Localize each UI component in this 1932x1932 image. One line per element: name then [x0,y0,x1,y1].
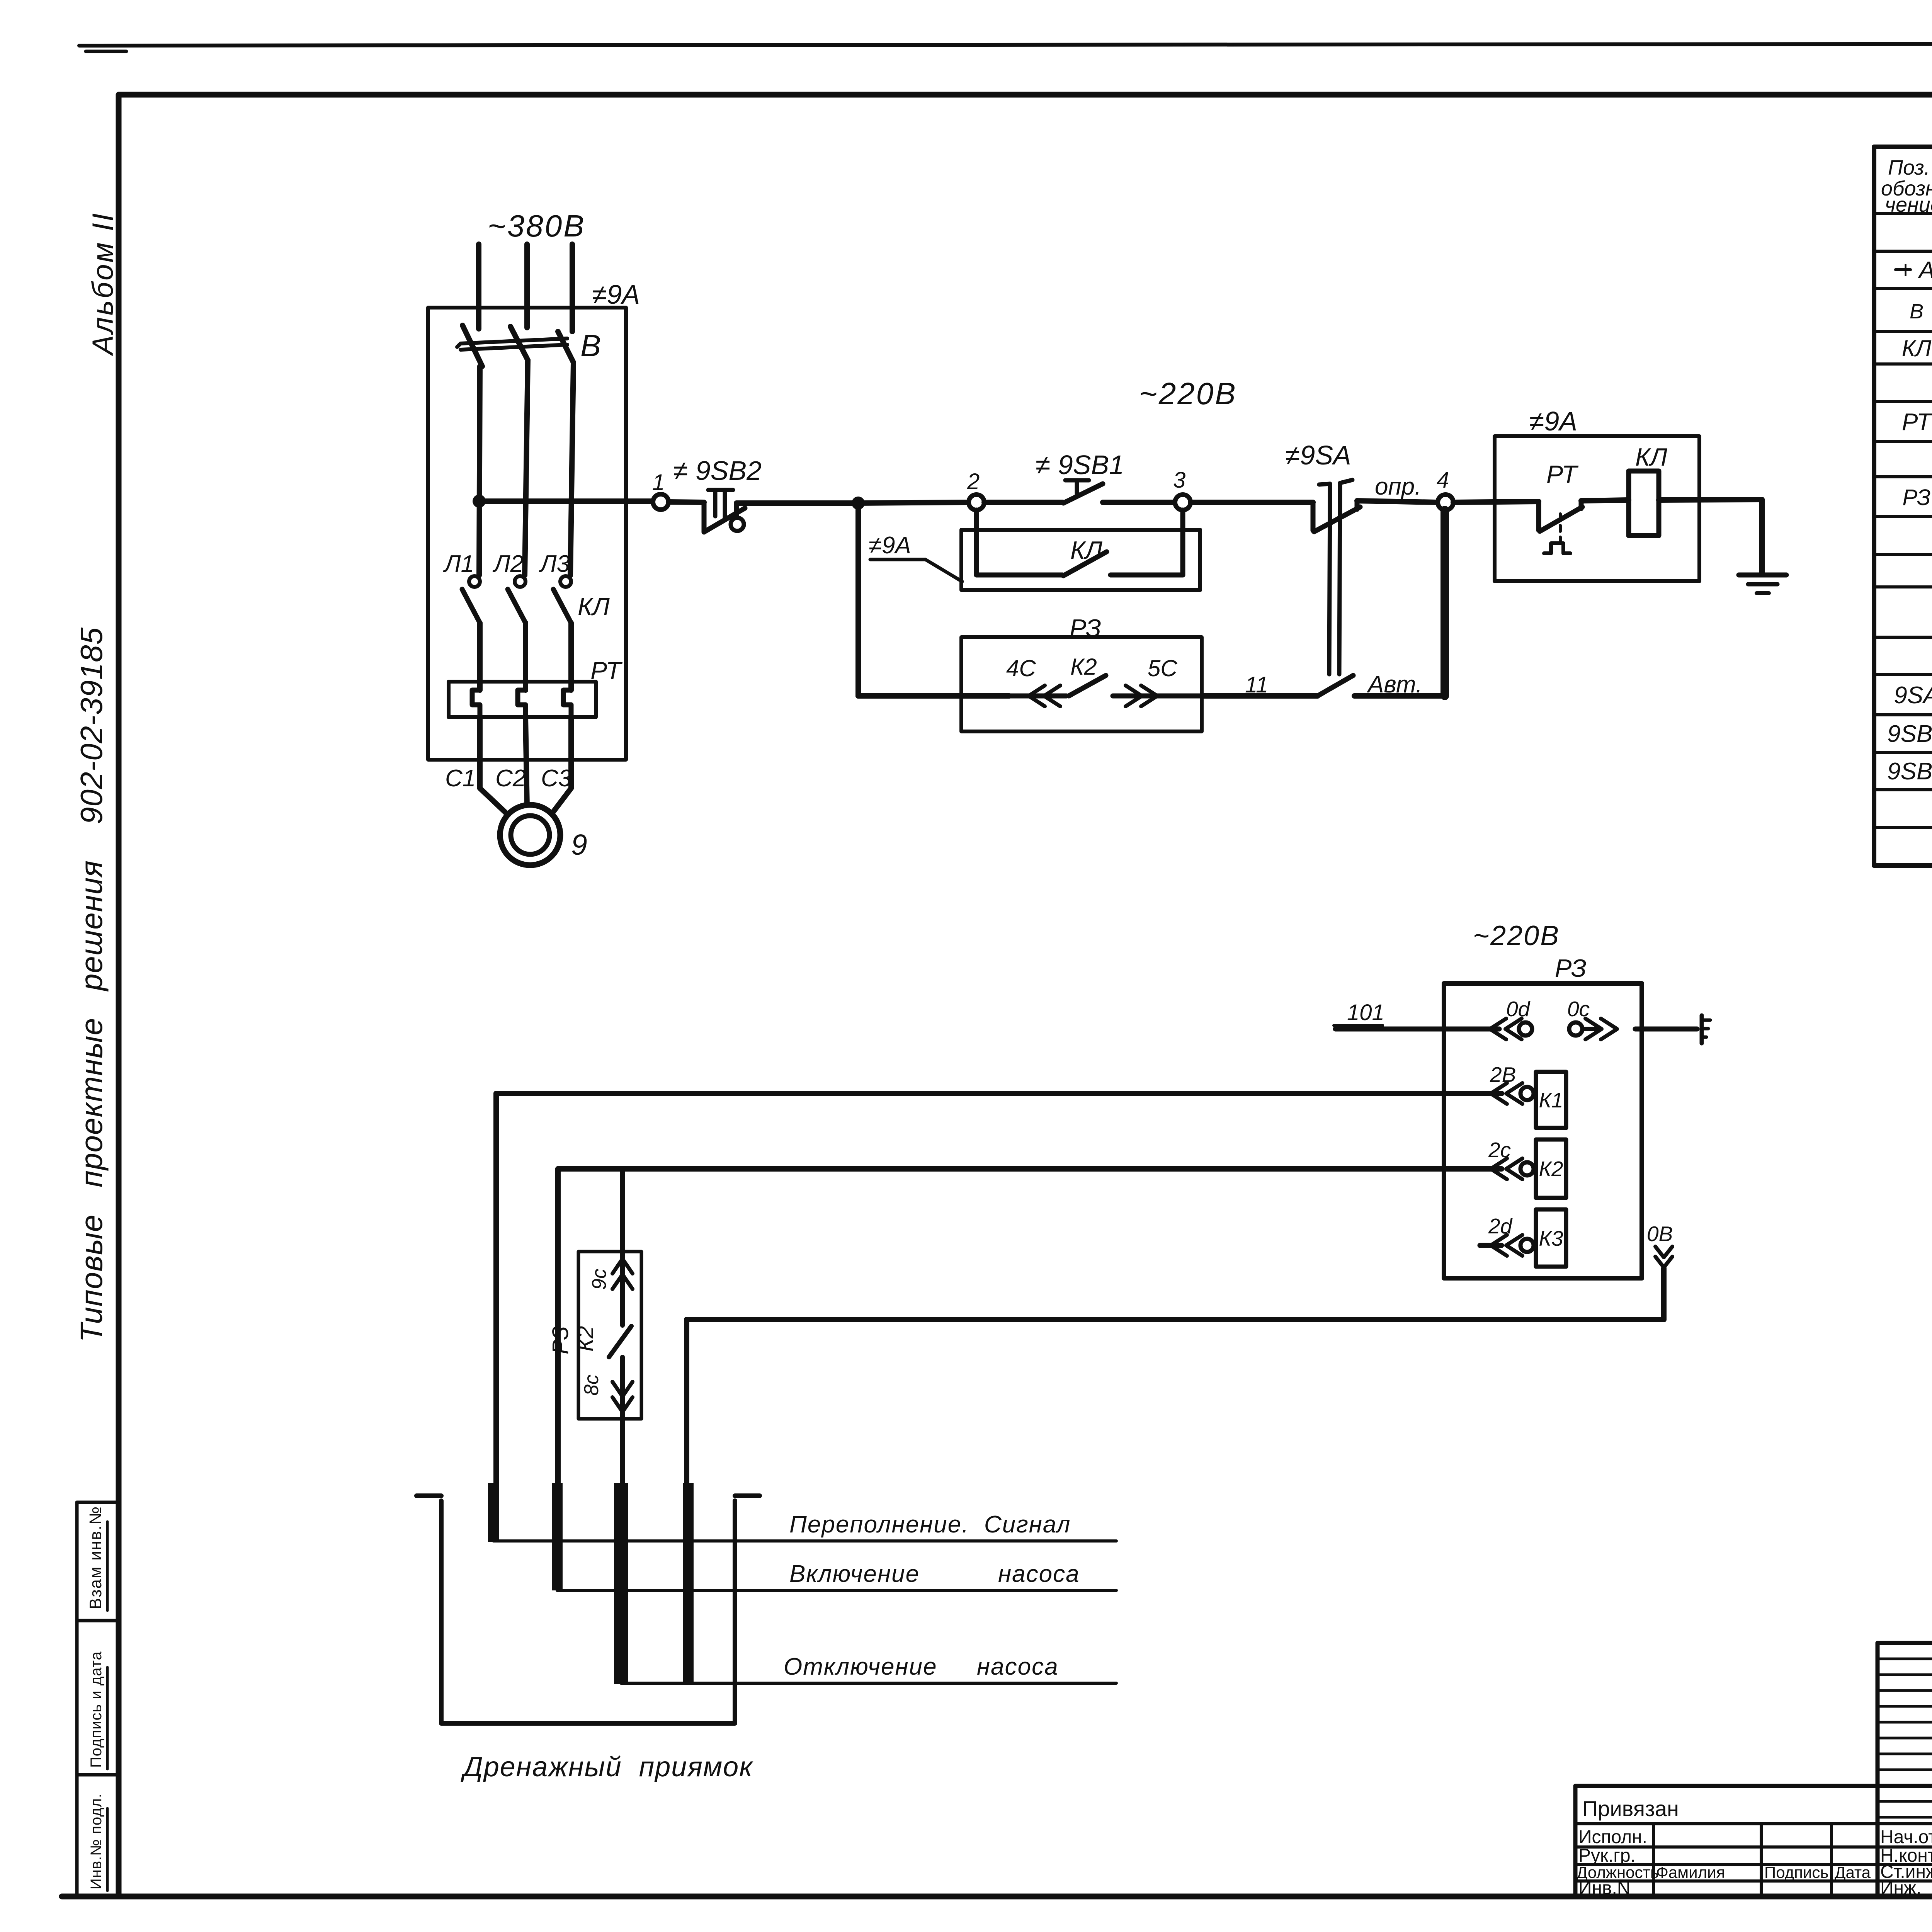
label terminal 1 [652,470,665,495]
component table grid [1874,147,1932,866]
wire terminal4 drop thick [1440,510,1449,696]
wire terminal3 drop [1180,510,1185,575]
RZ unit enclosure [1444,983,1642,1278]
svg-text:~220В: ~220В [1473,920,1560,951]
svg-text:~220В: ~220В [1139,376,1237,411]
svg-text:Переполнение. Сигнал: Переполнение. Сигнал [789,1511,1071,1538]
label L2 [492,551,524,577]
RZ 0c arrow [1582,1019,1617,1039]
wire terminal2 to SB1 [984,500,1063,505]
K2 arrow [1491,1158,1522,1179]
left margin series label [74,627,109,1342]
svg-text:≠ 9SВ2: ≠ 9SВ2 [673,456,762,486]
terminal 0d [1519,1022,1532,1036]
wire terminal2 drop [974,510,979,575]
svg-text:101: 101 [1347,1000,1384,1025]
pit wall left [417,1496,760,1723]
label RZ aux [1070,614,1101,642]
wire 101 [1335,1027,1499,1032]
svg-text:1: 1 [652,470,665,495]
svg-text:Дата: Дата [1835,1863,1871,1881]
wire junction drop [855,503,861,696]
svg-text:Отключение: Отключение [784,1653,937,1680]
left margin text Inv N podl [88,1793,107,1891]
K1 arrow [1491,1083,1522,1104]
svg-text:Нач.отд.: Нач.отд. [1880,1827,1932,1847]
svg-text:К2: К2 [1070,654,1097,680]
label C1 [445,765,476,792]
svg-text:насоса: насоса [998,1561,1080,1587]
svg-text:РЗ: РЗ [548,1326,573,1354]
svg-text:С3: С3 [541,765,571,792]
svg-text:Взам инв.№: Взам инв.№ [86,1506,105,1609]
label 101 [1334,1000,1384,1026]
switch 9SA step [1311,502,1316,531]
RT KL enclosure [1495,436,1699,581]
wire SB1 to terminal 3 [1103,500,1174,505]
svg-text:11: 11 [1245,672,1268,697]
wire 0V drop [1661,1268,1667,1320]
KL contact 3 blade [553,589,571,623]
electrode 2 pump on [552,1483,563,1590]
wire 0c to ground [1635,1027,1697,1032]
phase wire L3 lower [568,623,574,690]
svg-text:КЛ: КЛ [578,592,610,621]
terminal K2 [1520,1162,1534,1175]
label K2 [1539,1157,1563,1181]
KL aux enclosure [961,530,1200,590]
phase wire L1 top [476,244,481,329]
table row KL starter [1902,335,1932,361]
label KL aux [1070,536,1102,564]
sheet top edge line [79,43,1932,51]
label 4C [1006,655,1036,681]
svg-text:РТ: РТ [1546,460,1579,488]
svg-text:В: В [580,328,601,363]
label 5C [1148,655,1177,681]
label RT heater [590,656,623,685]
RT reset dashes [1559,514,1562,542]
svg-text:РЗ: РЗ [1902,485,1930,510]
motor lead C1 [480,788,509,816]
svg-text:Инв.№ подл.: Инв.№ подл. [88,1793,105,1889]
left margin box Podpis i data [77,1773,119,1777]
wire K2 drop b [620,1169,625,1256]
label motor 9 [571,828,587,861]
switch 9SA resume [1357,501,1437,509]
breaker V tie bar [457,338,567,350]
KL aux contact [976,552,1183,576]
button 9SB2 moving contact [731,518,744,531]
label 9A leader [869,532,962,582]
wire terminal3 to 9SA [1190,500,1313,505]
label drainage pit [461,1752,753,1782]
svg-text:Инж.: Инж. [1880,1878,1921,1898]
svg-text:Инв.N: Инв.N [1578,1878,1631,1898]
svg-text:РЗ: РЗ [1070,614,1101,642]
label L3 [539,551,570,577]
svg-text:9SВ2: 9SВ2 [1887,758,1932,785]
wire terminal4 to RT box [1453,502,1539,502]
wire K1 drop [493,1094,499,1484]
label 9A of RT KL box [1529,406,1577,436]
terminal K3 [1520,1239,1534,1252]
label RZ unit [1555,954,1587,982]
phase wire L2 top [524,244,530,328]
label 2c [1488,1138,1511,1162]
svg-text:Подпись: Подпись [1764,1863,1828,1881]
wire avt to terminal4 drop [1354,693,1445,699]
KL contact 2 terminal [515,576,526,587]
RT heater box [449,682,596,717]
button 9SB2 right hook [734,503,739,517]
table row +A [1896,257,1932,284]
wire KL coil to ground [1659,500,1762,574]
svg-text:Л3: Л3 [539,551,570,577]
svg-text:Типовые проектные решения: Типовые проектные решения 902-02-39185 [74,627,109,1342]
left margin text Podpis i data [88,1651,107,1769]
svg-text:2с: 2с [1488,1138,1511,1162]
svg-text:≠ 9SВ1: ≠ 9SВ1 [1036,450,1124,480]
motor feed wire C1 [477,717,483,788]
label 9SB2 [673,456,762,486]
svg-text:РЗ: РЗ [1555,954,1587,982]
svg-text:Поз.: Поз. [1888,156,1930,179]
switch 9SA blade upper [1314,507,1360,532]
K3 arrow [1480,1235,1522,1256]
terminal K1 [1520,1087,1534,1100]
svg-text:опр.: опр. [1375,473,1421,500]
button 9SB2 step [702,502,707,532]
svg-text:К2: К2 [573,1326,598,1352]
svg-text:0d: 0d [1506,997,1531,1021]
svg-text:РТ: РТ [1902,409,1932,435]
electrode 3 pump off [614,1483,628,1684]
label ~220V control [1139,376,1237,411]
svg-text:4С: 4С [1006,655,1036,681]
frame bottom extension [62,1894,119,1900]
label avt [1366,671,1422,698]
K2 drop blade [609,1287,631,1357]
label 9SA [1285,440,1351,470]
terminal 1 [653,494,668,510]
svg-text:Л2: Л2 [492,551,524,577]
switch 9SA rails [1319,480,1352,674]
table row 9SB1 [1887,721,1932,747]
svg-text:Дренажный приямок: Дренажный приямок [461,1752,753,1782]
RT heater element 1 [472,690,480,717]
breaker V blade 2 [510,327,528,360]
title block labels [1577,1668,1932,1898]
label KL coil [1635,443,1667,471]
wire K2 drop b lower [620,1420,625,1484]
wire 0V horizontal [687,1317,1664,1322]
RT heater element 2 [518,690,526,717]
svg-text:КЛ: КЛ [1902,335,1932,361]
button 9SB2 plunger [708,490,733,518]
svg-text:Подпись и дата: Подпись и дата [88,1651,105,1768]
RZ 0d arrow [1490,1019,1522,1039]
svg-text:чение: чение [1885,193,1932,216]
junction node phase L1 to control [473,495,486,508]
label 0V [1647,1222,1673,1246]
motor feed wire C2 [526,717,527,808]
wire node1 from L1 [479,498,653,504]
label C3 [541,765,571,792]
svg-text:2В: 2В [1490,1063,1516,1087]
label 0d [1506,997,1531,1021]
svg-text:насоса: насоса [977,1653,1059,1680]
switch 9SA blade avt [1318,675,1353,696]
RZ contact K2 blade [1069,675,1106,696]
label terminal 2 [967,469,980,494]
RZ aux enclosure [961,637,1202,731]
svg-text:≠9SА: ≠9SА [1285,440,1351,470]
label opr [1375,473,1421,500]
wire terminal1 to SB2 [668,502,704,502]
table row V breaker [1910,300,1932,323]
svg-text:Фамилия: Фамилия [1656,1863,1725,1881]
svg-text:3: 3 [1173,468,1185,493]
svg-text:Л1: Л1 [443,551,474,577]
RZ contact right arrow [1113,685,1202,706]
label 8c rotated [580,1374,603,1396]
label ~220V RZ [1473,920,1560,951]
wire junction to terminal 2 [858,502,968,503]
svg-text:≠9А: ≠9А [1529,406,1577,436]
left margin box Vzam inv N [77,1502,119,1896]
svg-text:5С: 5С [1148,655,1177,681]
label 2V [1490,1063,1516,1087]
svg-text:Альбом II: Альбом II [87,212,119,356]
KL contact 1 terminal [469,576,480,587]
breaker V blade 1 [463,325,482,366]
svg-text:2: 2 [967,469,980,494]
left margin text Vzam inv N [86,1506,107,1611]
table row RZ regulator [1902,485,1932,510]
RZ ground symbol [1702,1015,1710,1043]
label 0c [1567,997,1590,1021]
KL contact 1 blade [462,589,480,623]
motor feed wire C3 [568,717,574,788]
table row 9SA [1894,682,1932,709]
table header labels [1881,156,1932,216]
KL contact 2 blade [508,589,526,623]
electrode 1 overflow [488,1483,499,1542]
KL contact 3 terminal [560,576,571,587]
relay K3 box [1534,1209,1566,1267]
svg-text:9: 9 [571,828,587,861]
svg-text:С1: С1 [445,765,476,792]
svg-text:КЛ: КЛ [1070,536,1102,564]
terminal 2 [969,495,984,510]
relay K1 box [1534,1072,1566,1128]
svg-text:К3: К3 [1539,1226,1563,1250]
label C2 [495,765,526,792]
terminal 0c [1569,1022,1582,1036]
phase wire L1 middle [479,366,480,575]
button 9SB1 plunger [1065,480,1089,496]
phase wire L1 lower [477,623,483,690]
K2 drop arrow up [612,1256,633,1289]
svg-text:~380В: ~380В [488,209,586,243]
level line pump off [621,1682,1116,1685]
wire K1 long [496,1091,1502,1096]
label K3 [1539,1226,1563,1250]
RZ contact left arrow [1009,685,1066,706]
K2 drop contact box [578,1252,641,1419]
left margin album label [87,212,119,356]
svg-text:К1: К1 [1539,1088,1563,1112]
label K2 aux [1070,654,1097,680]
button 9SB2 blade [705,508,745,531]
title block grid [1575,1643,1932,1896]
RT heater element 3 [563,690,571,717]
label K1 [1539,1088,1563,1112]
table row 9SB2 [1887,758,1932,785]
table row RT relay [1902,409,1932,435]
wire RT to KL coil [1581,500,1629,509]
wire K2 drop a [555,1169,561,1484]
label KL main [578,592,610,621]
svg-text:4: 4 [1437,468,1449,493]
svg-text:9SА: 9SА [1894,682,1932,709]
terminal 4 [1438,495,1453,510]
svg-text:2d: 2d [1488,1214,1513,1238]
breaker V blade 3 [558,332,573,362]
svg-text:9с: 9с [588,1269,611,1290]
motor lead C3 [552,788,571,814]
wire 0V to electrode 4 [684,1320,689,1484]
svg-text:К2: К2 [1539,1157,1563,1181]
0V arrow down [1655,1247,1672,1267]
contactor coil KL [1629,471,1659,536]
svg-text:Исполн.: Исполн. [1578,1827,1647,1847]
electrode 4 common [683,1483,694,1684]
terminal 3 [1175,495,1190,510]
junction node 2221 [852,497,865,510]
label 9c rotated [588,1269,611,1290]
wire RZ aux to avt [1202,693,1318,699]
label RZ rotated [548,1326,573,1354]
svg-text:≠9А: ≠9А [592,279,640,310]
svg-text:КЛ: КЛ [1635,443,1667,471]
svg-text:8с: 8с [580,1374,603,1396]
panel boundary 9A [428,308,626,760]
label breaker V [580,328,601,363]
svg-text:≠9А: ≠9А [869,532,911,559]
relay K2 box [1534,1139,1566,1198]
phase wire L3 top [570,244,575,332]
phase wire L3 middle [570,362,573,575]
RT contact blade [1540,507,1582,531]
label 9SB1 [1036,450,1124,480]
level line pump on [557,1589,1116,1592]
RT contact step [1536,502,1541,530]
label overflow [789,1511,1071,1538]
label wire 11 [1245,672,1268,697]
label L1 [443,551,474,577]
svg-text:9SВ1: 9SВ1 [1887,721,1932,747]
wire K2 long [558,1166,1502,1172]
level line overflow [493,1539,1116,1543]
label terminal 4 [1437,468,1449,493]
svg-text:Привязан: Привязан [1582,1796,1679,1821]
K2 drop arrow down [612,1357,633,1420]
button 9SB1 blade [1063,484,1103,503]
wire SB2 to junction [736,500,858,506]
svg-text:Включение: Включение [789,1561,920,1587]
label pump off [784,1653,1059,1680]
phase wire L2 lower [523,623,528,690]
motor M double circle [500,805,560,865]
label terminal 3 [1173,468,1185,493]
svg-text:В: В [1910,300,1923,323]
label ~380V [488,209,586,243]
svg-text:0В: 0В [1647,1222,1673,1246]
RT reset symbol [1544,543,1570,553]
label K2 rotated [573,1326,598,1352]
label RT contact [1546,460,1579,488]
wire to RZ aux box [858,693,1009,699]
svg-text:С2: С2 [495,765,526,792]
phase wire L2 middle [525,360,528,575]
label 2d [1488,1214,1513,1238]
ground symbol [1739,575,1786,593]
label panel 9A [592,279,640,310]
label pump on [789,1561,1080,1587]
